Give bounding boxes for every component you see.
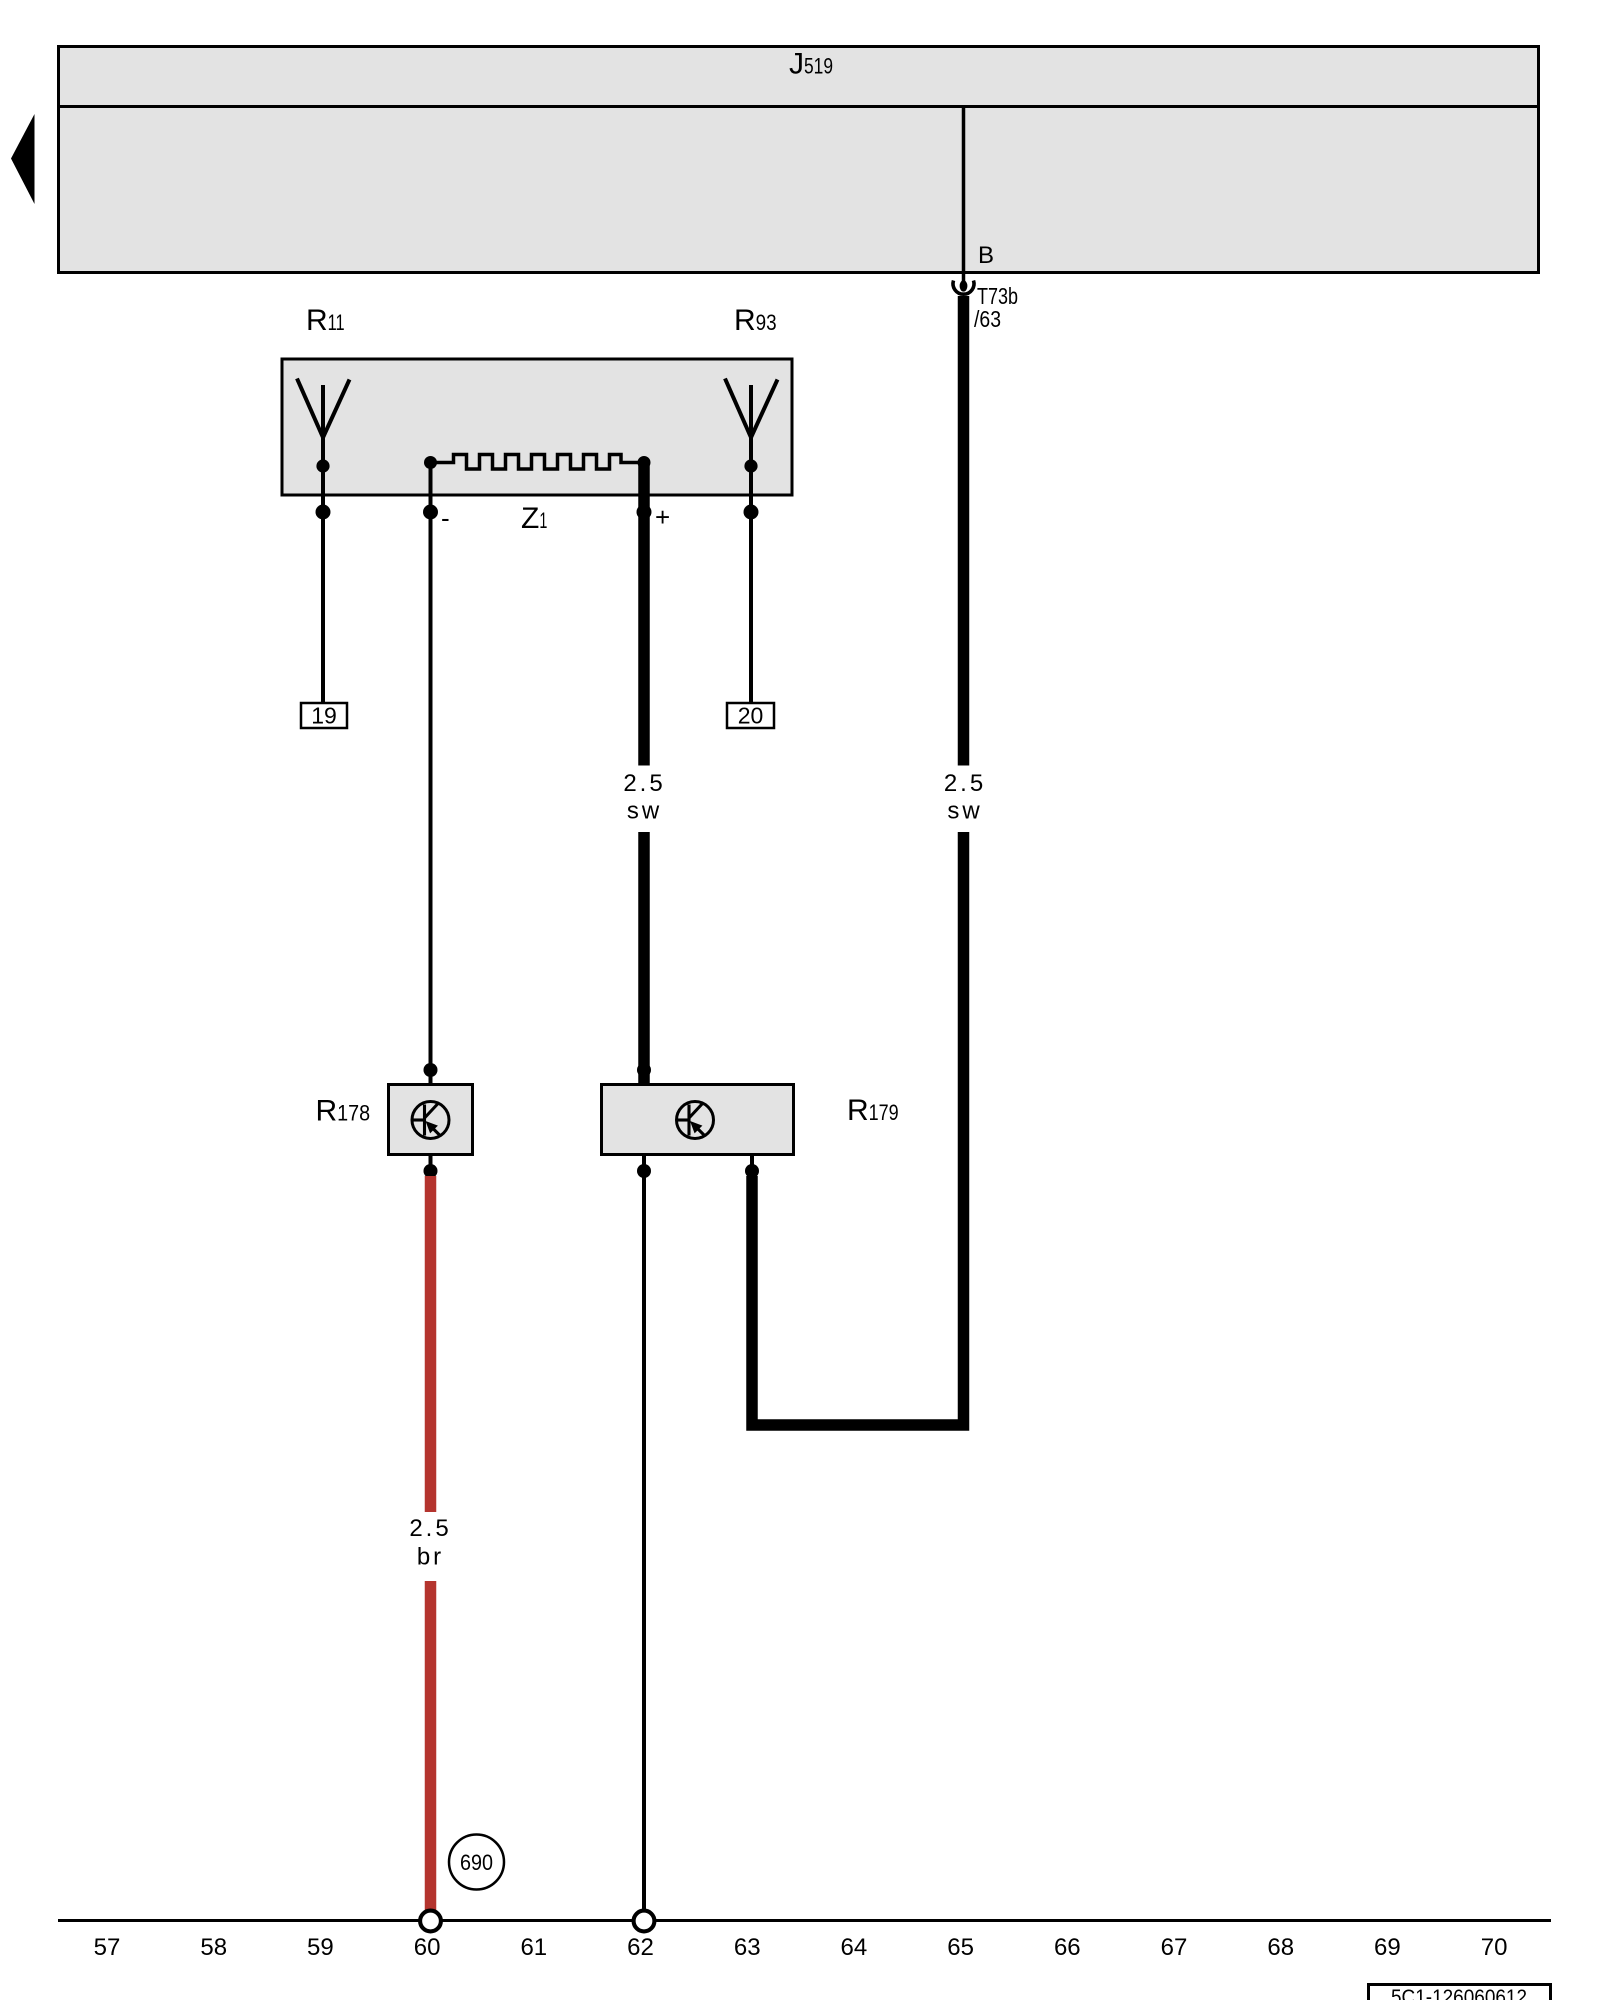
wire Z1 minus down to R178 xyxy=(429,463,433,1086)
node above R179 xyxy=(637,1063,651,1077)
terminal dot R11 xyxy=(316,505,331,520)
svg-text:58: 58 xyxy=(200,1934,227,1961)
svg-text:57: 57 xyxy=(94,1934,121,1961)
wire R11 to terminal 19 xyxy=(321,466,325,702)
loudspeaker R179 box xyxy=(602,1085,794,1155)
wire 2.5 sw lower segment with corner to R179 xyxy=(752,832,964,1425)
terminal dot R93 xyxy=(744,505,759,520)
wire 2.5 br lower segment xyxy=(425,1581,437,1910)
svg-text:63: 63 xyxy=(734,1934,761,1961)
wire R179 left pin to ground 62 xyxy=(642,1171,646,1910)
ground terminal at 62 xyxy=(634,1911,655,1932)
svg-text:64: 64 xyxy=(841,1934,868,1961)
connector T73b/63 socket arc xyxy=(953,281,974,295)
antenna R11 xyxy=(297,379,350,473)
svg-text:sw: sw xyxy=(947,798,982,825)
ground designation circle 690 xyxy=(449,1835,504,1890)
svg-text:62: 62 xyxy=(627,1934,654,1961)
svg-text:-: - xyxy=(441,503,450,533)
svg-text:sw: sw xyxy=(627,798,662,825)
connector T73b/63 pin xyxy=(960,280,968,291)
wire B inside J519 xyxy=(962,107,966,274)
control unit J519 box xyxy=(59,47,1539,273)
svg-text:69: 69 xyxy=(1374,1934,1401,1961)
wire Z1 plus thick 2.5 sw upper xyxy=(638,463,650,766)
wire Z1 plus thick 2.5 sw lower xyxy=(638,832,650,1085)
loudspeaker R179 symbol xyxy=(677,1102,714,1139)
svg-text:B: B xyxy=(978,242,994,269)
wire 2.5 sw from T73b (upper segment) xyxy=(958,296,970,766)
node Z1 left xyxy=(424,456,437,469)
continuation arrow (left margin) xyxy=(11,114,35,204)
node below R179 left pin xyxy=(642,1155,646,1171)
svg-text:br: br xyxy=(417,1544,444,1571)
svg-text:5C1-126060612: 5C1-126060612 xyxy=(1391,1986,1527,2000)
wire R93 to terminal 20 xyxy=(749,466,753,702)
connector T73b/63 pin lead xyxy=(962,273,966,282)
J519 internal divider line xyxy=(57,105,1540,108)
svg-text:67: 67 xyxy=(1161,1934,1188,1961)
svg-text:2.5: 2.5 xyxy=(944,770,986,797)
svg-text:61: 61 xyxy=(520,1934,547,1961)
antenna R93 xyxy=(725,379,778,473)
svg-text:66: 66 xyxy=(1054,1934,1081,1961)
component box R11/R93/Z1 xyxy=(282,359,792,495)
terminal dot Z1 minus xyxy=(423,505,438,520)
loudspeaker R178 symbol xyxy=(412,1102,449,1139)
svg-text:59: 59 xyxy=(307,1934,334,1961)
resistor element Z1 (heated rear window) meander xyxy=(431,455,645,470)
svg-text:68: 68 xyxy=(1267,1934,1294,1961)
svg-text:19: 19 xyxy=(311,703,337,729)
svg-text:65: 65 xyxy=(947,1934,974,1961)
document number box xyxy=(1369,1985,1551,2000)
svg-text:20: 20 xyxy=(738,703,764,729)
terminal dot Z1 plus xyxy=(637,505,652,520)
node below R178 xyxy=(429,1155,433,1171)
node above R178 xyxy=(424,1063,438,1077)
ground terminal at 60 xyxy=(420,1911,441,1932)
svg-text:60: 60 xyxy=(414,1934,441,1961)
bottom rail xyxy=(58,1919,1551,1922)
svg-text:+: + xyxy=(655,502,670,532)
terminal 19 box xyxy=(301,703,347,728)
terminal 20 box xyxy=(727,703,774,728)
wire 2.5 br upper segment xyxy=(425,1176,437,1512)
svg-text:70: 70 xyxy=(1481,1934,1508,1961)
svg-text:/63: /63 xyxy=(974,306,1001,332)
loudspeaker R178 box xyxy=(389,1085,473,1155)
scale numbers 57-70 xyxy=(94,1934,1508,1961)
svg-text:2.5: 2.5 xyxy=(409,1515,451,1542)
node Z1 right xyxy=(638,456,651,469)
node below R179 right pin xyxy=(750,1155,754,1171)
svg-text:2.5: 2.5 xyxy=(623,770,665,797)
svg-text:690: 690 xyxy=(460,1850,493,1875)
